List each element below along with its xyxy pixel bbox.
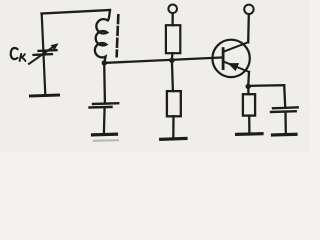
wire emitter node to C3 xyxy=(248,84,284,87)
ground bar under R3 xyxy=(237,132,262,136)
wire left vertical upper xyxy=(42,14,46,95)
transistor base bar xyxy=(222,49,225,69)
wire base line horizontal xyxy=(104,57,223,63)
wire terminal to R1 xyxy=(171,13,173,25)
wire junction to R2 xyxy=(172,60,173,91)
capacitor CK top plate xyxy=(39,49,57,52)
ground bar under C3 xyxy=(273,133,297,137)
ground bar under R2 xyxy=(161,137,186,141)
node emitter junction xyxy=(246,84,251,89)
transistor emitter diagonal xyxy=(224,62,249,72)
terminal circle top resistor xyxy=(168,5,177,14)
emitter arrow (PNP) xyxy=(228,63,239,71)
capacitor CK bottom plate xyxy=(34,53,53,56)
terminal circle collector xyxy=(244,5,253,14)
capacitor C3 top plate xyxy=(273,106,298,109)
ground bar middle xyxy=(93,133,117,137)
wire below C3 xyxy=(284,112,287,134)
resistor R1 xyxy=(166,25,180,53)
node coil-base junction xyxy=(102,60,107,65)
wire collector up xyxy=(247,14,250,42)
wire R2 to ground xyxy=(172,116,174,137)
label CK (drawn glyphs) xyxy=(11,48,26,61)
inductor L coil xyxy=(95,10,110,63)
wire middle capacitor drop xyxy=(103,63,106,103)
node divider junction xyxy=(169,58,174,63)
capacitor C2 bottom plate xyxy=(90,106,112,109)
wire below C2 xyxy=(103,107,106,133)
resistor R2 xyxy=(167,91,181,116)
terminal bar left xyxy=(31,94,59,98)
wire emitter node to R3 xyxy=(247,86,250,94)
faint scan echo below middle ground bar xyxy=(94,139,118,142)
arrow of variable capacitor CK xyxy=(29,46,54,64)
resistor R3 xyxy=(243,94,255,115)
inductor core dashed line xyxy=(117,15,120,23)
transistor collector diagonal xyxy=(224,42,249,51)
capacitor C3 bottom plate xyxy=(271,110,296,113)
wire emitter down xyxy=(247,72,250,87)
transistor VT1 body circle xyxy=(212,40,249,77)
wire R3 to ground xyxy=(248,116,250,133)
capacitor C2 top plate xyxy=(93,102,118,105)
wire R1 to junction xyxy=(171,53,174,60)
wire top horizontal xyxy=(42,10,111,14)
